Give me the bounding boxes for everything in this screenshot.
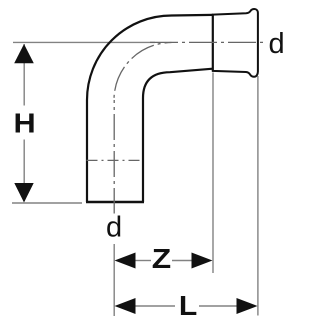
svg-text:H: H	[14, 108, 36, 139]
svg-text:Z: Z	[152, 243, 171, 274]
svg-text:d: d	[269, 28, 285, 60]
svg-text:L: L	[179, 290, 197, 321]
svg-text:d: d	[106, 212, 122, 244]
